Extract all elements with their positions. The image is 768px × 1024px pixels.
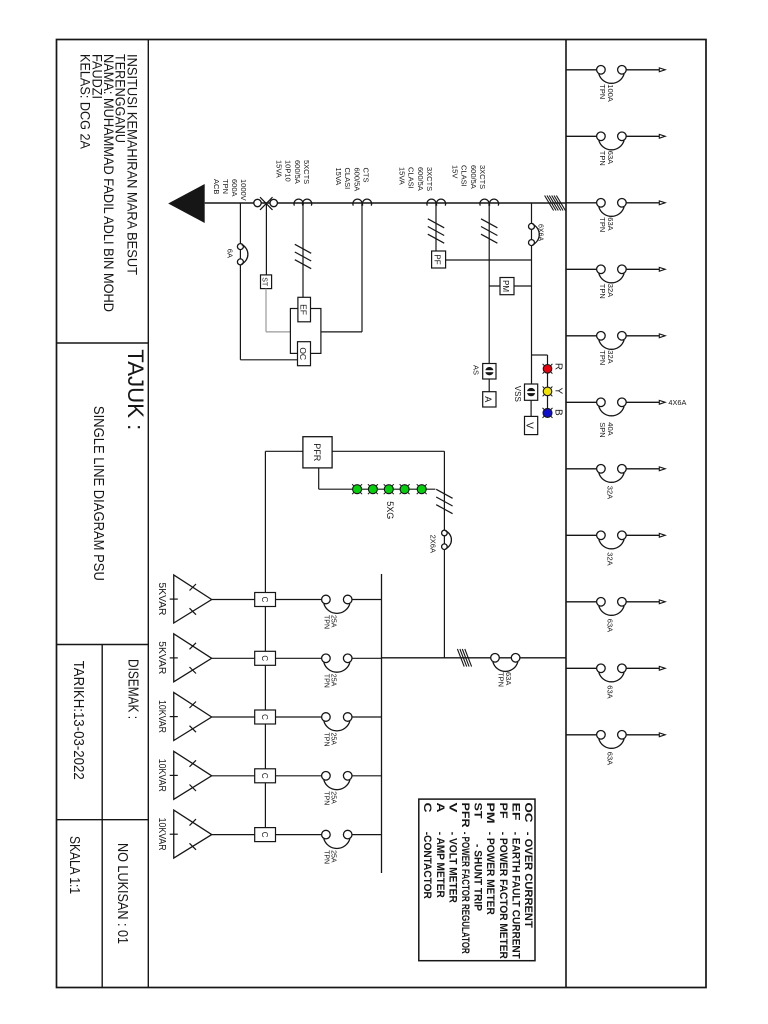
svg-text:TPN: TPN <box>323 850 330 864</box>
svg-text:10KVAR: 10KVAR <box>156 759 168 792</box>
svg-text:- VOLT METER: - VOLT METER <box>446 832 458 903</box>
svg-text:SPN: SPN <box>598 422 607 437</box>
fuse 6A <box>237 244 243 250</box>
wire CT1 to EF with 3-phase hash <box>302 203 304 297</box>
PFR box <box>303 437 332 468</box>
V voltmeter box <box>525 416 538 434</box>
svg-text:4X6A: 4X6A <box>668 398 686 407</box>
svg-text:C: C <box>260 832 269 838</box>
svg-text:CLASI: CLASI <box>460 165 469 187</box>
capacitor step 1 5KVAR <box>156 575 382 629</box>
svg-text:R: R <box>553 363 564 370</box>
svg-text:SINGLE LINE DIAGRAM PSU: SINGLE LINE DIAGRAM PSU <box>90 406 107 581</box>
CT4 on riser <box>489 199 498 205</box>
svg-text:C: C <box>260 655 269 661</box>
title divider 3 <box>57 819 149 821</box>
svg-text:25A: 25A <box>330 850 337 863</box>
svg-text:- POWER METER: - POWER METER <box>484 832 496 915</box>
title divider horizontal <box>101 645 103 988</box>
svg-text:TAJUK :: TAJUK : <box>123 349 148 430</box>
main busbar <box>565 40 567 988</box>
svg-text:3XCTS: 3XCTS <box>425 167 434 191</box>
svg-text:NO LUKISAN : 01: NO LUKISAN : 01 <box>114 843 130 944</box>
outgoing way 3 fuse-switch 63A TPN <box>566 199 665 233</box>
svg-text:2X6A: 2X6A <box>429 535 438 553</box>
svg-text:OC: OC <box>298 347 308 360</box>
wire branch to RYB lamps <box>532 354 548 356</box>
svg-text:- OVER CURRENT: - OVER CURRENT <box>522 832 534 928</box>
wire AS to A <box>488 379 490 392</box>
legend box <box>419 799 535 961</box>
wire riser to OC via 6A fuse <box>239 203 241 360</box>
svg-text:CLASI: CLASI <box>343 168 352 190</box>
fuse 2X6A <box>442 530 448 536</box>
svg-text:10KVAR: 10KVAR <box>156 700 168 733</box>
lamp Y yellow <box>551 387 553 389</box>
title divider 2 <box>57 644 149 646</box>
svg-text:3XCTS: 3XCTS <box>478 165 487 189</box>
OC relay box <box>298 342 311 366</box>
svg-text:15VA: 15VA <box>334 168 343 186</box>
title divider 1 <box>57 342 149 344</box>
svg-text:32A: 32A <box>606 552 615 565</box>
wire CT3 to PF with hash <box>435 203 437 251</box>
PF meter box <box>432 251 446 268</box>
svg-text:V: V <box>524 422 535 429</box>
outgoing way 10 fuse-switch 63A <box>566 664 665 699</box>
svg-text:EF: EF <box>298 304 308 315</box>
capacitor collector bar <box>381 574 383 873</box>
svg-text:TPN: TPN <box>598 284 607 299</box>
CT2 on riser <box>362 199 371 205</box>
wire PFR to indicator lamps <box>318 468 320 489</box>
relay enclosure <box>290 309 321 354</box>
svg-text:- SHUNT TRIP: - SHUNT TRIP <box>472 844 484 911</box>
svg-text:-CONTACTOR: -CONTACTOR <box>421 832 433 899</box>
svg-text:C: C <box>260 714 269 720</box>
lamp R red <box>551 364 553 366</box>
svg-text:TPN: TPN <box>598 350 607 365</box>
outgoing way 5 fuse-switch 32A TPN <box>566 332 665 366</box>
svg-text:63A: 63A <box>606 752 615 765</box>
svg-text:32A: 32A <box>606 284 615 297</box>
svg-text:6A: 6A <box>226 249 235 258</box>
border frame <box>57 40 707 988</box>
svg-text:63A: 63A <box>606 217 615 230</box>
lamps 5XG green <box>360 484 362 486</box>
title strip top line <box>147 40 149 988</box>
svg-text:V: V <box>446 803 458 814</box>
wire PFR voltage feed with 2X6A fuse <box>443 451 445 658</box>
ST box (shunt trip) <box>261 275 272 289</box>
VSS voltmeter selector <box>525 384 538 400</box>
svg-text:CLASI: CLASI <box>407 167 416 189</box>
svg-text:5KVAR: 5KVAR <box>156 583 168 616</box>
svg-text:TPN: TPN <box>323 791 330 805</box>
svg-text:25A: 25A <box>330 733 337 746</box>
feeder hash <box>465 649 472 667</box>
svg-text:PF: PF <box>497 803 509 819</box>
svg-text:Y: Y <box>553 388 564 395</box>
supply arrow (incoming) <box>168 184 205 223</box>
svg-text:TPN: TPN <box>221 179 230 194</box>
svg-text:SKALA 1:1: SKALA 1:1 <box>66 836 82 894</box>
svg-text:- EARTH FAULT CURRENT: - EARTH FAULT CURRENT <box>509 832 521 959</box>
svg-text:DISEMAK :: DISEMAK : <box>124 659 140 719</box>
AS selector meter <box>483 364 496 380</box>
svg-text:1000V: 1000V <box>239 179 248 201</box>
CT3 on riser <box>436 199 445 205</box>
wire VSS to V <box>530 400 532 416</box>
svg-text:100A: 100A <box>606 84 615 102</box>
svg-text:5XG: 5XG <box>385 501 395 519</box>
capacitor step 3 10KVAR <box>156 693 382 747</box>
capacitor step 4 10KVAR <box>156 751 382 805</box>
svg-text:VSS: VSS <box>513 386 522 402</box>
riser multi-wire hash <box>556 196 565 211</box>
svg-text:15V: 15V <box>450 165 459 178</box>
svg-text:600/5A: 600/5A <box>416 167 425 191</box>
svg-text:EF: EF <box>509 803 521 821</box>
svg-text:- POWER FACTOR METER: - POWER FACTOR METER <box>497 832 509 959</box>
svg-text:OC: OC <box>522 803 534 823</box>
wire PFR to contactor control bus <box>265 450 303 452</box>
svg-text:B: B <box>553 409 564 416</box>
outgoing way 8 fuse-switch 32A <box>566 531 665 566</box>
svg-text:ST: ST <box>472 803 484 819</box>
svg-text:A: A <box>434 803 446 813</box>
outgoing way 6 fuse-switch 40A SPN <box>566 398 665 438</box>
wire PM vertical <box>489 285 531 287</box>
outgoing way 9 fuse-switch 63A <box>566 598 665 633</box>
wire ST to relay enclosure (grey) <box>265 289 267 332</box>
svg-text:C: C <box>260 773 269 779</box>
capacitor step 2 5KVAR <box>156 634 382 688</box>
svg-text:63A: 63A <box>606 619 615 632</box>
svg-text:CTS: CTS <box>362 168 371 183</box>
svg-text:32A: 32A <box>606 350 615 363</box>
EF relay box <box>298 297 311 322</box>
outgoing way 4 fuse-switch 32A TPN <box>566 265 665 299</box>
svg-text:TARIKH:13-03-2022: TARIKH:13-03-2022 <box>70 661 86 780</box>
svg-text:600/5A: 600/5A <box>469 165 478 189</box>
svg-text:- POWER FACTOR REGULATOR: - POWER FACTOR REGULATOR <box>459 832 471 954</box>
wire CT4 to AS meter with hash <box>488 203 490 364</box>
svg-text:15VA: 15VA <box>397 167 406 185</box>
fuse 63A TPN on feeder <box>491 654 500 663</box>
CT1 on riser <box>302 199 311 205</box>
svg-text:PF: PF <box>432 254 441 264</box>
wire CT2 to relay enclosure <box>361 203 363 332</box>
outgoing way 11 fuse-switch 63A <box>566 731 665 766</box>
svg-text:PM: PM <box>484 803 496 824</box>
svg-text:KELAS: DCG 2A: KELAS: DCG 2A <box>78 54 94 150</box>
svg-text:C: C <box>421 803 433 813</box>
wire riser to ST <box>265 203 267 275</box>
wire fused voltage branch <box>531 203 533 384</box>
svg-text:TPN: TPN <box>323 615 330 629</box>
outgoing way 2 fuse-switch 63A TPN <box>566 132 665 166</box>
svg-text:40A: 40A <box>606 422 615 435</box>
svg-text:63A: 63A <box>606 151 615 164</box>
svg-text:600/5A: 600/5A <box>293 160 302 184</box>
svg-text:ACB: ACB <box>212 179 221 194</box>
outgoing way 1 fuse-switch 100A TPN <box>566 66 665 102</box>
svg-text:600A: 600A <box>230 179 239 197</box>
wire PF up to fused branch <box>446 259 532 261</box>
svg-text:600/5A: 600/5A <box>352 168 361 192</box>
incoming riser wire <box>205 202 566 204</box>
svg-text:TPN: TPN <box>598 217 607 232</box>
svg-text:TPN: TPN <box>323 733 330 747</box>
svg-text:PFR: PFR <box>459 803 471 828</box>
PM meter box <box>500 278 514 295</box>
svg-text:15VA: 15VA <box>274 160 283 178</box>
svg-text:6X6A: 6X6A <box>537 224 544 241</box>
svg-text:A: A <box>483 396 493 402</box>
svg-text:10P10: 10P10 <box>284 160 293 182</box>
fuse 6X6A <box>529 223 535 229</box>
capacitor feeder riser <box>382 657 567 659</box>
outgoing way 7 fuse-switch 32A <box>566 465 665 500</box>
svg-text:5XCTS: 5XCTS <box>302 160 311 184</box>
A ammeter box <box>483 392 496 407</box>
svg-text:AS: AS <box>471 365 480 375</box>
lamp B blue <box>551 408 553 410</box>
svg-text:C: C <box>260 597 269 603</box>
svg-text:TPN: TPN <box>598 151 607 166</box>
svg-text:25A: 25A <box>330 615 337 628</box>
svg-text:PFR: PFR <box>312 443 322 462</box>
svg-text:32A: 32A <box>606 486 615 499</box>
svg-text:ST: ST <box>261 277 268 287</box>
svg-text:- AMP METER: - AMP METER <box>434 832 446 898</box>
svg-text:TPN: TPN <box>497 672 506 687</box>
svg-text:PM: PM <box>501 280 510 292</box>
svg-text:TPN: TPN <box>598 84 607 99</box>
ACB circuit breaker <box>254 197 278 210</box>
svg-text:25A: 25A <box>330 791 337 804</box>
capacitor step 5 10KVAR <box>156 810 382 864</box>
svg-text:25A: 25A <box>330 674 337 687</box>
svg-text:10KVAR: 10KVAR <box>156 818 168 851</box>
svg-text:63A: 63A <box>606 685 615 698</box>
svg-text:TPN: TPN <box>323 674 330 688</box>
svg-text:5KVAR: 5KVAR <box>156 641 168 674</box>
